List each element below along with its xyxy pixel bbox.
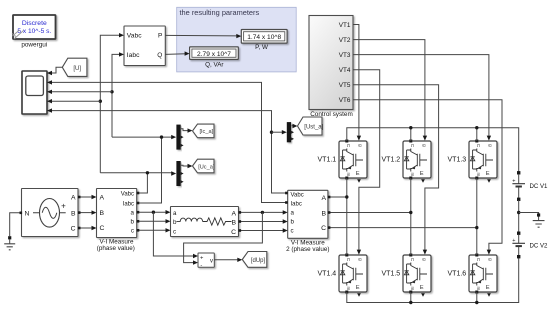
branch to VT1.2 collector	[410, 128, 412, 141]
VT1.3 unconnected m output stub	[487, 179, 491, 182]
svg-text:VT5: VT5	[339, 82, 351, 89]
svg-text:A: A	[321, 195, 326, 202]
VT1.2 unconnected m output stub	[421, 179, 425, 182]
wire demux Ic_a input	[112, 136, 172, 138]
VT1.5 unconnected m output stub	[421, 293, 425, 296]
svg-text:b: b	[131, 219, 135, 226]
annotation box: the resulting parameters	[177, 7, 297, 72]
wire measure2 C to leg C	[328, 227, 477, 229]
VT1.4 unconnected m output stub	[357, 293, 361, 296]
demux Ust_a unconnected outputs	[291, 131, 294, 134]
VT1.3 emitter port	[475, 177, 478, 180]
wire measure2 a-tap to sum minus input	[184, 212, 263, 262]
svg-text:2.79 x 10^7: 2.79 x 10^7	[197, 51, 231, 58]
svg-text:Q, VAr: Q, VAr	[205, 62, 223, 69]
svg-text:+: +	[512, 238, 515, 244]
wire a-node to sum plus input	[153, 212, 193, 256]
demux for Ic_a	[176, 125, 180, 150]
svg-text:VT6: VT6	[339, 97, 351, 104]
IGBT block VT1.2	[403, 141, 431, 178]
svg-text:VT4: VT4	[339, 67, 351, 74]
svg-text:[Ic_a]: [Ic_a]	[199, 129, 213, 135]
wire Vabc1 up to scope and PQ	[100, 35, 119, 173]
svg-text:+: +	[512, 179, 515, 185]
VT1.6 emitter port	[475, 291, 478, 294]
display block P value 1.74 x 10^8	[241, 30, 287, 44]
leg A: VT1.1 emitter to VT1.4 collector	[346, 178, 348, 255]
display block Q value 2.79 x 10^7	[190, 47, 239, 60]
svg-text:VT3: VT3	[339, 52, 351, 59]
svg-text:B: B	[100, 210, 105, 217]
wire demux Ust_a input	[272, 131, 283, 133]
wire [U] to scope input 1	[48, 67, 63, 73]
VT1.5 emitter port	[409, 291, 412, 294]
svg-text:C: C	[71, 226, 76, 233]
goto tag dUp	[242, 252, 266, 268]
V-I Measure block 1	[97, 189, 137, 238]
svg-text:c: c	[291, 228, 294, 235]
svg-text:E: E	[356, 171, 360, 177]
svg-text:E: E	[486, 285, 490, 291]
wire demux Uc_a input	[100, 172, 171, 174]
svg-text:g: g	[488, 144, 493, 147]
VT1.2 collector port	[409, 140, 412, 143]
DC plus bus	[347, 128, 519, 172]
demux for Uc_a	[176, 161, 180, 186]
wire V1 to V2	[518, 200, 520, 232]
VT1.5 emitter to bus	[410, 292, 412, 303]
junction Ust_a tap	[270, 131, 273, 134]
wire source C to measure C	[78, 227, 92, 229]
from tag [U]	[62, 58, 87, 76]
wire Iabc1 riser to junction	[137, 137, 162, 203]
VT1.4 emitter port	[345, 291, 348, 294]
svg-text:m: m	[346, 286, 351, 290]
VT1.5 collector port	[409, 254, 412, 257]
wire source A to measure A	[78, 196, 92, 198]
svg-text:Q: Q	[157, 52, 162, 59]
svg-text:g: g	[358, 258, 363, 261]
ground right	[519, 213, 545, 228]
wire demux to Ust_a tag	[292, 125, 296, 127]
svg-text:Iabc: Iabc	[291, 202, 302, 208]
svg-text:VT1.1: VT1.1	[318, 157, 337, 164]
IGBT block VT1.3	[469, 141, 497, 178]
wire measure1 c to RLC c	[137, 229, 166, 231]
powergui block	[12, 15, 56, 49]
wire demux to Ic_a tag	[181, 129, 188, 131]
svg-text:m: m	[410, 286, 415, 290]
demux Uc_a unconnected outputs	[181, 172, 184, 175]
svg-text:C: C	[231, 229, 236, 236]
wire scope input 3	[48, 91, 113, 93]
wire P to display	[165, 34, 237, 37]
ground left	[4, 213, 21, 250]
wire Q to display	[165, 53, 186, 56]
DC source V1	[512, 171, 525, 201]
svg-text:DC V2: DC V2	[530, 243, 549, 250]
svg-text:c: c	[131, 228, 134, 235]
svg-text:B: B	[71, 210, 76, 217]
svg-text:+: +	[61, 202, 66, 211]
IGBT block VT1.4	[339, 255, 367, 292]
wire Iabc1 up to scope and PQ	[112, 54, 120, 137]
VT1.6 emitter to bus	[476, 292, 478, 303]
VT1.3 collector port	[475, 140, 478, 143]
svg-text:b: b	[173, 219, 177, 226]
wire measure1 a to RLC a	[137, 211, 166, 213]
svg-text:A: A	[100, 195, 105, 202]
svg-text:A: A	[231, 210, 236, 217]
svg-text:Vabc: Vabc	[291, 192, 304, 198]
wire RLC B to measure2 b	[239, 221, 284, 223]
goto tag Ic_a	[193, 124, 215, 138]
svg-text:m: m	[476, 172, 481, 176]
svg-text:Iabc: Iabc	[123, 201, 134, 207]
svg-text:C: C	[321, 225, 326, 232]
three-phase AC source	[22, 189, 79, 237]
three-phase series RLC branch	[171, 207, 239, 237]
svg-text:m: m	[346, 172, 351, 176]
gate wire VT4	[353, 70, 380, 251]
wire measure1 b to RLC b	[137, 220, 166, 222]
svg-text:c: c	[173, 228, 176, 235]
svg-text:VT1.3: VT1.3	[448, 157, 467, 164]
wire scope input 4	[48, 100, 101, 102]
svg-text:b: b	[291, 219, 295, 226]
svg-text:VT1: VT1	[339, 22, 351, 29]
svg-text:VT1.6: VT1.6	[448, 271, 467, 278]
VT1.2 emitter port	[409, 177, 412, 180]
svg-text:a: a	[131, 209, 135, 216]
svg-text:Iabc: Iabc	[127, 52, 140, 59]
VT1.6 collector port	[475, 254, 478, 257]
svg-text:a: a	[291, 210, 295, 217]
svg-text:B: B	[321, 210, 326, 217]
control system block	[309, 16, 353, 110]
VT1.1 unconnected m output stub	[357, 179, 361, 182]
svg-text:[dUp]: [dUp]	[251, 258, 266, 264]
leg C: VT1.3 emitter to VT1.6 collector	[476, 178, 478, 255]
V-I Measure block 2	[288, 190, 328, 238]
svg-text:B: B	[231, 219, 236, 226]
svg-text:v: v	[210, 259, 213, 265]
IGBT block VT1.6	[469, 255, 497, 292]
gate wire VT1	[353, 25, 359, 137]
svg-text:VT2: VT2	[339, 37, 351, 44]
svg-text:-: -	[200, 262, 202, 268]
wire Iabc2 to scope input 2	[48, 82, 288, 202]
gate wire VT6	[353, 100, 502, 251]
VT1.1 collector port	[345, 140, 348, 143]
svg-text:E: E	[420, 171, 424, 177]
VT1.1 emitter port	[345, 177, 348, 180]
svg-text:Discrete: Discrete	[22, 20, 47, 27]
junction a phase	[152, 211, 155, 214]
svg-text:g: g	[358, 144, 363, 147]
svg-text:[Uc_a]: [Uc_a]	[198, 164, 215, 170]
wire Vabc1 riser to junction	[137, 173, 148, 193]
gate wire VT5	[353, 85, 439, 251]
svg-text:g: g	[422, 144, 427, 147]
DC minus bus	[347, 258, 519, 303]
svg-text:A: A	[71, 195, 76, 202]
power measurement block P Q	[124, 26, 165, 66]
gate wire VT3	[353, 55, 489, 137]
wire Vabc2 to scope input 5	[48, 111, 288, 193]
wire measure2 B to leg B	[328, 212, 411, 214]
svg-text:[Ust_a]: [Ust_a]	[304, 124, 323, 130]
svg-text:(phase value): (phase value)	[97, 245, 135, 252]
leg B: VT1.2 emitter to VT1.5 collector	[410, 178, 412, 255]
svg-text:m: m	[476, 286, 481, 290]
scope block	[22, 71, 47, 114]
svg-text:the resulting parameters: the resulting parameters	[180, 8, 260, 17]
branch to VT1.3 collector	[476, 128, 478, 141]
VT1.4 collector port	[345, 254, 348, 257]
svg-text:DC V1: DC V1	[530, 183, 549, 190]
wire demux to Uc_a tag	[181, 164, 188, 167]
svg-text:VT1.2: VT1.2	[382, 157, 401, 164]
demux for Ust_a	[287, 122, 291, 142]
gate wire VT2	[353, 40, 425, 137]
DC source V2	[512, 232, 525, 259]
svg-text:N: N	[25, 210, 30, 217]
wire source B to measure B	[78, 212, 92, 214]
goto tag Ust_a	[298, 117, 323, 135]
svg-text:g: g	[488, 258, 493, 261]
IGBT block VT1.1	[339, 141, 367, 178]
svg-text:E: E	[486, 171, 490, 177]
svg-text:E: E	[356, 285, 360, 291]
wire sum to dUp tag	[214, 259, 238, 261]
svg-text:Vabc: Vabc	[127, 33, 142, 40]
svg-text:powergui: powergui	[21, 42, 47, 49]
sum block voltage difference	[198, 253, 214, 268]
svg-text:VT1.4: VT1.4	[318, 271, 337, 278]
svg-text:VT1.5: VT1.5	[382, 271, 401, 278]
svg-text:1.74 x 10^8: 1.74 x 10^8	[247, 34, 281, 41]
wire RLC C to measure2 c	[239, 230, 284, 232]
IGBT block VT1.5	[403, 255, 431, 292]
goto tag Uc_a	[193, 159, 215, 173]
svg-text:a: a	[173, 210, 177, 217]
svg-text:2 (phase value): 2 (phase value)	[286, 246, 329, 253]
junction dUp tap	[261, 211, 264, 214]
VT1.6 unconnected m output stub	[487, 293, 491, 296]
svg-text:C: C	[100, 225, 105, 232]
demux Ic_a unconnected outputs	[181, 136, 184, 139]
svg-text:Vabc: Vabc	[121, 191, 134, 197]
wire measure2 A to leg A	[328, 196, 347, 198]
svg-text:P: P	[158, 33, 162, 40]
svg-text:m: m	[410, 172, 415, 176]
svg-text:g: g	[422, 258, 427, 261]
svg-text:E: E	[420, 285, 424, 291]
wire RLC A to measure2 a	[239, 211, 284, 213]
svg-text:P, W: P, W	[255, 44, 268, 51]
svg-text:[U]: [U]	[73, 66, 81, 72]
